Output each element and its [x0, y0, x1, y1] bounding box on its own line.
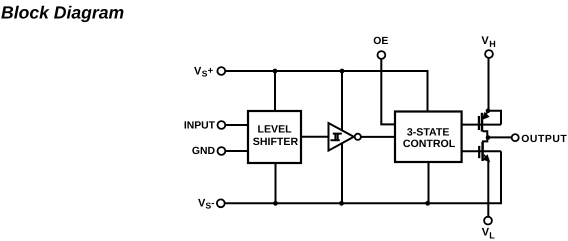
svg-text:OUTPUT: OUTPUT [521, 134, 567, 145]
svg-text:3-STATE: 3-STATE [407, 126, 450, 138]
svg-text:OE: OE [373, 36, 388, 47]
svg-text:CONTROL: CONTROL [403, 138, 456, 150]
svg-text:H: H [489, 39, 496, 49]
svg-text:+: + [208, 65, 214, 76]
svg-text:L: L [489, 231, 495, 241]
svg-text:Block Diagram: Block Diagram [1, 2, 124, 22]
svg-text:V: V [481, 35, 489, 47]
svg-text:INPUT: INPUT [184, 120, 216, 131]
svg-text:SHIFTER: SHIFTER [253, 136, 299, 148]
svg-text:-: - [211, 198, 214, 209]
svg-text:GND: GND [192, 146, 216, 157]
svg-text:LEVEL: LEVEL [258, 124, 293, 136]
